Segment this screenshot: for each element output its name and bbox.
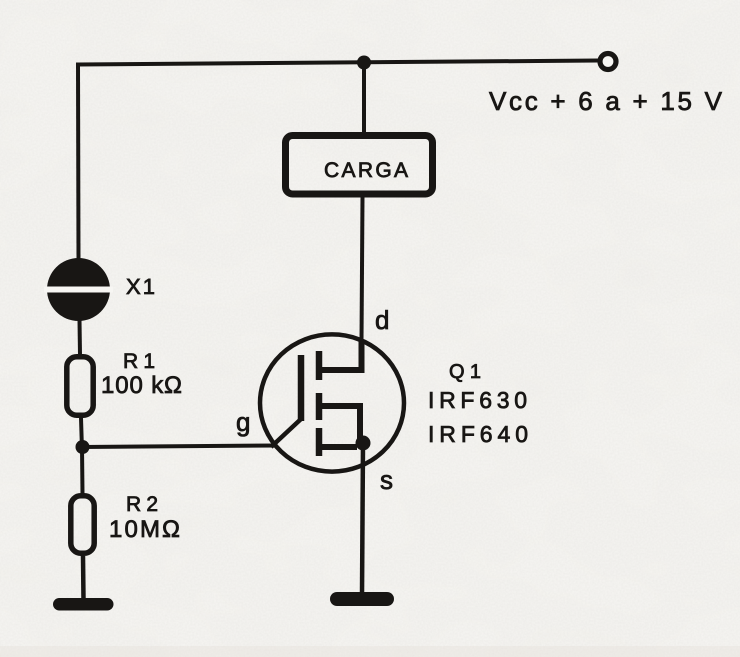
wire gate node to transistor gate (82, 446, 277, 448)
node source junction (356, 436, 371, 451)
resistor R1 (67, 357, 93, 415)
svg-text:Vcc + 6 a + 15 V: Vcc + 6 a + 15 V (489, 86, 723, 116)
wire rail to CARGA (362, 63, 366, 134)
wire R2 to ground (81, 556, 86, 600)
load box CARGA (286, 136, 433, 195)
svg-text:d: d (375, 305, 389, 335)
svg-text:10MΩ: 10MΩ (109, 516, 180, 543)
Q1 gate electrode (298, 355, 305, 421)
Q1 channel segment top (316, 351, 323, 380)
Q1 channel segment bottom (316, 428, 323, 456)
resistor R2 (71, 496, 94, 553)
sensor X1 (44, 258, 113, 321)
wire CARGA to drain (362, 197, 363, 340)
svg-text:CARGA: CARGA (324, 159, 408, 182)
scan shading bottom edge (0, 646, 740, 657)
ground right (330, 592, 394, 606)
transistor Q1 body circle (260, 334, 404, 471)
node gate junction (76, 440, 90, 454)
wire left vertical rail to X1 (76, 63, 81, 261)
wire top supply rail (78, 61, 598, 65)
svg-text:100 kΩ: 100 kΩ (101, 372, 182, 399)
Q1 body tap (319, 406, 360, 443)
Q1 drain tap (319, 340, 362, 370)
Q1 channel segment middle (316, 393, 323, 420)
svg-text:R 2: R 2 (126, 493, 158, 516)
ground left (53, 598, 114, 611)
Q1 gate diagonal lead (271, 419, 301, 447)
node supply junction (357, 56, 371, 70)
terminal Vcc (600, 54, 616, 70)
svg-text:s: s (380, 465, 393, 495)
svg-text:Q 1: Q 1 (449, 361, 481, 383)
wire X1 to R1 (78, 320, 83, 355)
wire gate node to R2 (80, 447, 85, 494)
wire R1 to gate node (81, 418, 82, 450)
svg-text:X 1: X 1 (126, 274, 155, 299)
wire source to ground (362, 443, 363, 594)
svg-text:R 1: R 1 (123, 350, 155, 373)
Q1 source tap (319, 444, 357, 450)
svg-text:g: g (236, 407, 250, 437)
